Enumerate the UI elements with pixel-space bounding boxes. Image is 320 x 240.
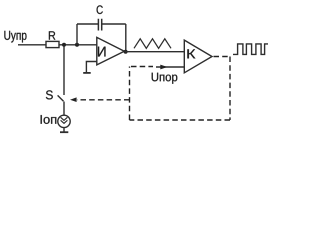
- arrowhead to switch: [70, 97, 77, 102]
- switch S label: [46, 90, 53, 99]
- node junction to switch: [62, 43, 66, 47]
- dashed wire feedback right vertical: [229, 57, 231, 121]
- node op-amp output junction: [124, 50, 128, 54]
- current source chevron 2: [61, 120, 68, 123]
- wire capacitor left leg: [76, 24, 78, 45]
- wire capacitor top rail left: [77, 23, 98, 25]
- dashed wire feedback bottom: [130, 119, 231, 121]
- resistor R label: [49, 31, 55, 39]
- switch S arm: [58, 95, 64, 101]
- node junction to capacitor: [75, 43, 79, 47]
- op-amp U1 integrator: [97, 37, 125, 65]
- sawtooth waveform symbol: [134, 39, 171, 49]
- square wave output symbol: [233, 44, 268, 55]
- arrowhead Upor: [160, 65, 167, 70]
- comparator U2: [184, 40, 212, 73]
- wire capacitor top rail right: [102, 23, 126, 25]
- current source Iop circle: [58, 115, 70, 127]
- resistor R: [46, 41, 59, 47]
- capacitor C: [98, 19, 101, 31]
- wire switch to current source: [63, 102, 65, 116]
- wire op-amp lower input: [86, 62, 96, 73]
- dashed wire to switch: [77, 99, 130, 101]
- current source chevron 1: [61, 117, 68, 120]
- dashed wire comparator output: [214, 56, 231, 58]
- ground at op-amp input: [83, 72, 91, 74]
- node Upor label: [152, 73, 178, 84]
- wire node to switch: [63, 47, 65, 96]
- dashed wire feedback left vertical: [129, 67, 131, 121]
- node Uupr label: [4, 31, 26, 43]
- wire input to resistor: [18, 44, 46, 46]
- op-amp label I: [98, 47, 105, 57]
- wire resistor to op-amp input: [59, 44, 97, 46]
- comparator label K: [187, 49, 195, 58]
- current source Iop label: [41, 115, 57, 124]
- dashed wire to Upor arrow: [131, 66, 153, 68]
- wire Upor input with arrow: [156, 66, 184, 68]
- wire current source to ground: [63, 128, 65, 132]
- ground at current source: [60, 131, 68, 133]
- wire capacitor right leg: [125, 24, 127, 52]
- capacitor C label: [97, 5, 103, 14]
- wire op-amp output to comparator: [124, 51, 184, 53]
